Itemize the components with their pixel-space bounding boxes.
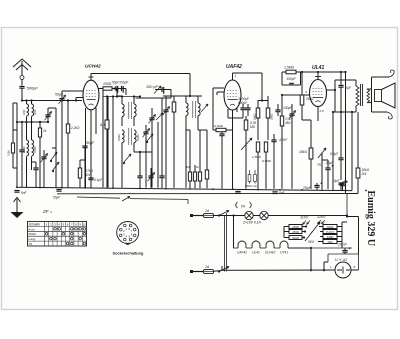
wire HT from selector (341, 242, 343, 249)
IF transformer 1 frame (122, 104, 124, 117)
HT rail right (345, 72, 347, 194)
pin 1 top (89, 76, 94, 78)
svg-text:0,650: 0,650 (33, 146, 37, 153)
cap 50uF bus (56, 190, 61, 192)
svg-text:220V: 220V (316, 215, 326, 219)
svg-text:UCH42: UCH42 (265, 251, 276, 255)
svg-text:0,650: 0,650 (136, 134, 140, 141)
riser (323, 262, 325, 270)
svg-text:0,2µF: 0,2µF (330, 152, 339, 156)
pins bottom (85, 108, 87, 188)
wire antenna to mixer grid (22, 100, 82, 102)
box AU (105, 120, 109, 129)
resistor 150 ohm (103, 87, 112, 90)
chassis arrow symbol (14, 198, 21, 203)
anode right (327, 89, 336, 91)
svg-text:25µF: 25µF (302, 186, 312, 190)
svg-text:UCH42: UCH42 (85, 64, 101, 70)
scale lamp 1 (245, 211, 253, 219)
trimmer capacitor (41, 157, 46, 159)
mains pair vertical (224, 216, 226, 272)
svg-text:50µF: 50µF (53, 196, 61, 200)
svg-text:90V: 90V (308, 240, 315, 244)
svg-text:140Ω: 140Ω (327, 235, 335, 239)
res 0,1M horizontal (216, 128, 226, 131)
wire to UL41 top (301, 71, 346, 73)
left pins (217, 87, 224, 89)
svg-text:1,5MΩ: 1,5MΩ (284, 66, 295, 70)
svg-text:50pF: 50pF (55, 93, 64, 97)
volume pot (241, 138, 252, 150)
antenna coil L1 (27, 104, 29, 116)
switch lower (218, 270, 220, 272)
resistor 2,2k (66, 124, 69, 133)
svg-text:3,9k: 3,9k (7, 150, 11, 156)
transformer wires (355, 80, 357, 86)
svg-text:4,7nF: 4,7nF (279, 138, 288, 142)
svg-text:Schalter: Schalter (29, 223, 42, 227)
resistor 18k tone (309, 148, 313, 159)
svg-text:25kΩ: 25kΩ (253, 114, 257, 120)
wire pin1 to oscillator (90, 74, 92, 81)
switch arrow mid (147, 134, 153, 141)
svg-text:2×19V 0,1A: 2×19V 0,1A (242, 221, 262, 225)
node (189, 95, 191, 97)
cap 2uF (338, 86, 343, 88)
cap 4,7nF (271, 140, 276, 142)
trimmers IF1 (143, 132, 148, 134)
svg-text:500pF: 500pF (27, 86, 39, 91)
pin1 to HT bus (317, 72, 319, 80)
antenna (13, 59, 31, 67)
svg-text:150Ω: 150Ω (103, 82, 112, 86)
svg-text:150 pF: 150 pF (146, 85, 159, 89)
svg-text:2,2kΩ: 2,2kΩ (70, 126, 80, 130)
trimmer (289, 114, 294, 116)
wire grid2 line (98, 88, 117, 90)
resistors 25k (256, 108, 260, 118)
svg-text:100pF: 100pF (287, 77, 297, 81)
wire (125, 89, 127, 96)
band switch table (28, 222, 87, 247)
bus 2 (57, 193, 358, 195)
trimmer capacitor 50pF (59, 99, 64, 101)
cap 5nF at ground left (14, 191, 19, 193)
resistors bottom (188, 172, 191, 181)
IF transformer 2 (186, 103, 188, 116)
svg-text:1,5MΩ: 1,5MΩ (252, 155, 262, 159)
pin grid left (62, 90, 83, 92)
grid pin left (282, 94, 310, 96)
svg-text:U Y 41: U Y 41 (335, 257, 347, 262)
coil L2 pair (27, 140, 29, 156)
selector lever (305, 222, 320, 241)
cap (19, 150, 24, 152)
cap (159, 176, 164, 178)
rectifier pins (222, 269, 335, 271)
wire x158 (157, 122, 159, 188)
left vertical (310, 248, 312, 270)
resistor 0,39M (244, 120, 248, 130)
resistor 1,5M grid (286, 70, 296, 74)
resistors lower (256, 142, 259, 152)
wire (13, 102, 17, 104)
svg-text:0,60: 0,60 (22, 109, 26, 115)
speaker (371, 77, 373, 112)
svg-text:ZF =: ZF = (42, 209, 53, 214)
wire (55, 108, 57, 148)
anode pin 1 wire (232, 73, 234, 75)
svg-text:NSW 0,1A: NSW 0,1A (245, 185, 257, 188)
svg-text:MΩ: MΩ (286, 121, 292, 125)
wire x108 (107, 96, 109, 188)
svg-text:40Ω: 40Ω (327, 240, 333, 244)
wire (48, 107, 56, 109)
svg-text:2W: 2W (361, 172, 368, 176)
wire (134, 151, 152, 153)
svg-text:20mF: 20mF (337, 243, 348, 247)
mains pair bottom corner (221, 266, 223, 270)
selector feed (346, 216, 348, 217)
svg-text:0,600: 0,600 (117, 134, 121, 141)
cap 50uF mid (235, 192, 240, 194)
svg-text:NSW: NSW (327, 225, 334, 229)
antenna connector (20, 76, 24, 80)
tap arrows 110V (303, 221, 307, 225)
svg-text:UL41: UL41 (252, 251, 260, 255)
svg-text:18kΩ: 18kΩ (299, 150, 307, 154)
switch arrow (154, 86, 161, 94)
wire (16, 103, 18, 187)
speaker top wire (372, 76, 390, 78)
switch (156, 113, 163, 120)
wire to lamp line (233, 216, 235, 249)
wire down from bus3 (187, 199, 189, 204)
svg-text:50pF150pF: 50pF150pF (112, 81, 129, 85)
svg-text:2µF: 2µF (344, 86, 352, 90)
resistor 27k (78, 168, 81, 178)
verticals IF area (117, 95, 122, 97)
wire lamp feed down (346, 194, 348, 216)
cap 10uF (325, 168, 330, 170)
wire (55, 148, 57, 187)
resistor chain right stack (323, 225, 337, 229)
wire vertical 352 (351, 112, 353, 191)
svg-text:1: 1 (235, 74, 237, 78)
resistor box (172, 102, 176, 112)
resistor 0,47M (280, 116, 283, 126)
svg-text:1k: 1k (43, 129, 47, 133)
svg-text:Lang: Lang (29, 237, 36, 241)
bus 3 with switch (77, 197, 120, 198)
caps 50pF 150pF (116, 86, 118, 93)
resistor 1k (38, 128, 41, 137)
bottom pins (227, 109, 229, 118)
svg-text:Kurz: Kurz (29, 227, 36, 231)
svg-text:250Ω: 250Ω (291, 230, 300, 234)
resistor 3,9k vertical (11, 143, 14, 153)
mains terminal upper (191, 215, 203, 217)
cap (33, 168, 38, 170)
svg-text:UY41: UY41 (280, 251, 288, 255)
pin1 (232, 75, 234, 80)
svg-text:UL41: UL41 (312, 65, 324, 71)
cap 5nF right area (272, 192, 277, 194)
IF1 secondary (122, 130, 124, 143)
small resistors NSW (248, 175, 251, 182)
svg-text:110V: 110V (300, 216, 309, 220)
tone switch (318, 148, 326, 158)
cap 50uF right (340, 184, 345, 186)
osc trimmer (201, 104, 208, 112)
wire (170, 90, 172, 99)
bus dots (16, 186, 18, 188)
resistor 18k 2W (356, 168, 360, 178)
svg-text:UAF42: UAF42 (226, 64, 242, 70)
IF1 top rail (103, 96, 140, 98)
cap (137, 176, 142, 178)
svg-text:150Ω: 150Ω (292, 225, 300, 229)
svg-text:UAF42: UAF42 (237, 251, 247, 255)
switch contact (51, 152, 57, 160)
resistor 1M (300, 95, 304, 105)
output transformer (356, 86, 359, 106)
switch contact (53, 162, 59, 170)
box around rectifier (328, 253, 359, 255)
speaker bottom wire (372, 111, 388, 113)
mains terminal lower (191, 271, 203, 273)
cathode bottom (317, 107, 319, 122)
band trimmer (45, 115, 50, 117)
capacitor 500pF (19, 87, 24, 89)
tube socket diagram (117, 222, 139, 244)
svg-text:0,1MΩ: 0,1MΩ (214, 124, 224, 128)
resistor 0,1 (205, 170, 208, 179)
svg-text:7A: 7A (241, 205, 246, 209)
svg-text:P 20,5: P 20,5 (326, 230, 334, 234)
svg-text:AÜ: AÜ (99, 123, 105, 127)
svg-text:1A: 1A (205, 265, 210, 269)
wire (198, 129, 207, 131)
svg-text:Eumig 329 U: Eumig 329 U (365, 191, 376, 247)
node (16, 121, 18, 123)
wire (228, 117, 243, 119)
switch (124, 154, 131, 162)
main ground bus (16, 187, 352, 190)
heater chain (233, 247, 238, 249)
trimmer bottom (148, 176, 153, 178)
scale lamps bracket 7A (236, 202, 252, 208)
tap arrows 220V (318, 220, 322, 224)
wire vertical 333 (332, 112, 334, 190)
svg-text:1M: 1M (186, 165, 191, 169)
svg-text:0,1µF: 0,1µF (94, 178, 103, 182)
svg-text:Mittel: Mittel (29, 232, 37, 236)
wire top IF2 (163, 95, 202, 97)
svg-text:500Ω: 500Ω (292, 236, 300, 240)
trimmer (163, 110, 168, 112)
svg-text:Sockelschaltung: Sockelschaltung (113, 251, 145, 256)
svg-text:1A: 1A (205, 209, 210, 213)
svg-text:0,1MΩ: 0,1MΩ (262, 159, 272, 163)
rectifier tube UY41 (335, 262, 351, 278)
svg-text:50µF: 50µF (86, 141, 95, 145)
svg-text:10: 10 (83, 222, 87, 226)
resistor chain left stack (289, 225, 302, 229)
svg-text:MΩ: MΩ (250, 125, 256, 129)
svg-text:0,65: 0,65 (33, 109, 37, 115)
svg-text:TA: TA (29, 242, 33, 246)
cap 100pF (275, 110, 280, 112)
switch upper (218, 214, 220, 216)
svg-text:2,8: 2,8 (319, 109, 325, 113)
cap 0,1 (219, 134, 224, 136)
cap 0,1uF (88, 178, 93, 180)
lamp wires (214, 215, 245, 217)
svg-text:25kΩ: 25kΩ (270, 114, 274, 120)
scale lamp 2 (260, 211, 268, 219)
